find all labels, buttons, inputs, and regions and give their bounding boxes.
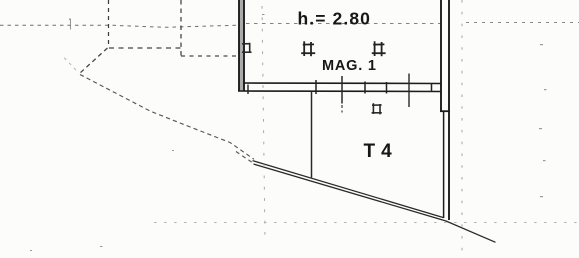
boundary dashed step horizontal 1 xyxy=(109,47,181,49)
building bottom wall bottom line xyxy=(238,90,441,93)
wall tick d xyxy=(386,82,388,94)
survey grid dashed line east segment xyxy=(466,22,579,24)
boundary dashed vertical west xyxy=(108,0,110,48)
wall tick c xyxy=(364,82,366,94)
small pillar in T4 xyxy=(372,103,382,114)
building right wall outer line xyxy=(448,0,450,220)
road edge upper solid diagonal xyxy=(253,161,444,218)
survey grid dashed line middle segment xyxy=(246,23,440,25)
partition line below wall at x311 xyxy=(311,92,313,178)
survey grid dashed line west segment xyxy=(0,25,238,27)
wall tick b xyxy=(315,80,317,94)
svg-text:T 4: T 4 xyxy=(364,141,393,162)
pillar P1 xyxy=(301,41,315,56)
faint dashed survey line east vertical xyxy=(461,0,463,258)
parcel boundary faint tail northwest xyxy=(63,57,76,71)
station tick on grid line xyxy=(70,19,72,30)
partition line below wall at x342 xyxy=(341,76,343,104)
interior faint dashed partition x264 xyxy=(262,6,265,240)
pillar P2 xyxy=(372,41,386,56)
wall pilaster on left wall xyxy=(242,43,252,53)
door jamb long tick xyxy=(408,74,410,108)
parcel boundary dashed diagonal short xyxy=(80,48,108,74)
wall tick e xyxy=(431,83,433,92)
partition line x342 dashed end xyxy=(341,105,343,113)
wall tick a xyxy=(247,85,249,95)
building bottom wall (MAG.1 south wall) top line xyxy=(243,82,441,85)
building right wall inner line upper xyxy=(440,0,442,112)
svg-text:MAG. 1: MAG. 1 xyxy=(322,58,377,74)
faint dashed survey line lower horizontal xyxy=(154,222,579,224)
building right wall inner line lower xyxy=(443,111,445,218)
parcel boundary lower dashed lead-in xyxy=(236,152,253,164)
parcel boundary dashed diagonal long xyxy=(80,75,254,160)
svg-text:h.= 2.80: h.= 2.80 xyxy=(298,9,372,29)
road edge lower solid diagonal continuing single xyxy=(254,164,496,242)
right wall ledge connector xyxy=(440,110,450,112)
boundary dashed vertical mid xyxy=(180,0,182,56)
building left wall xyxy=(239,0,244,91)
boundary dashed step horizontal 2 xyxy=(181,55,239,57)
